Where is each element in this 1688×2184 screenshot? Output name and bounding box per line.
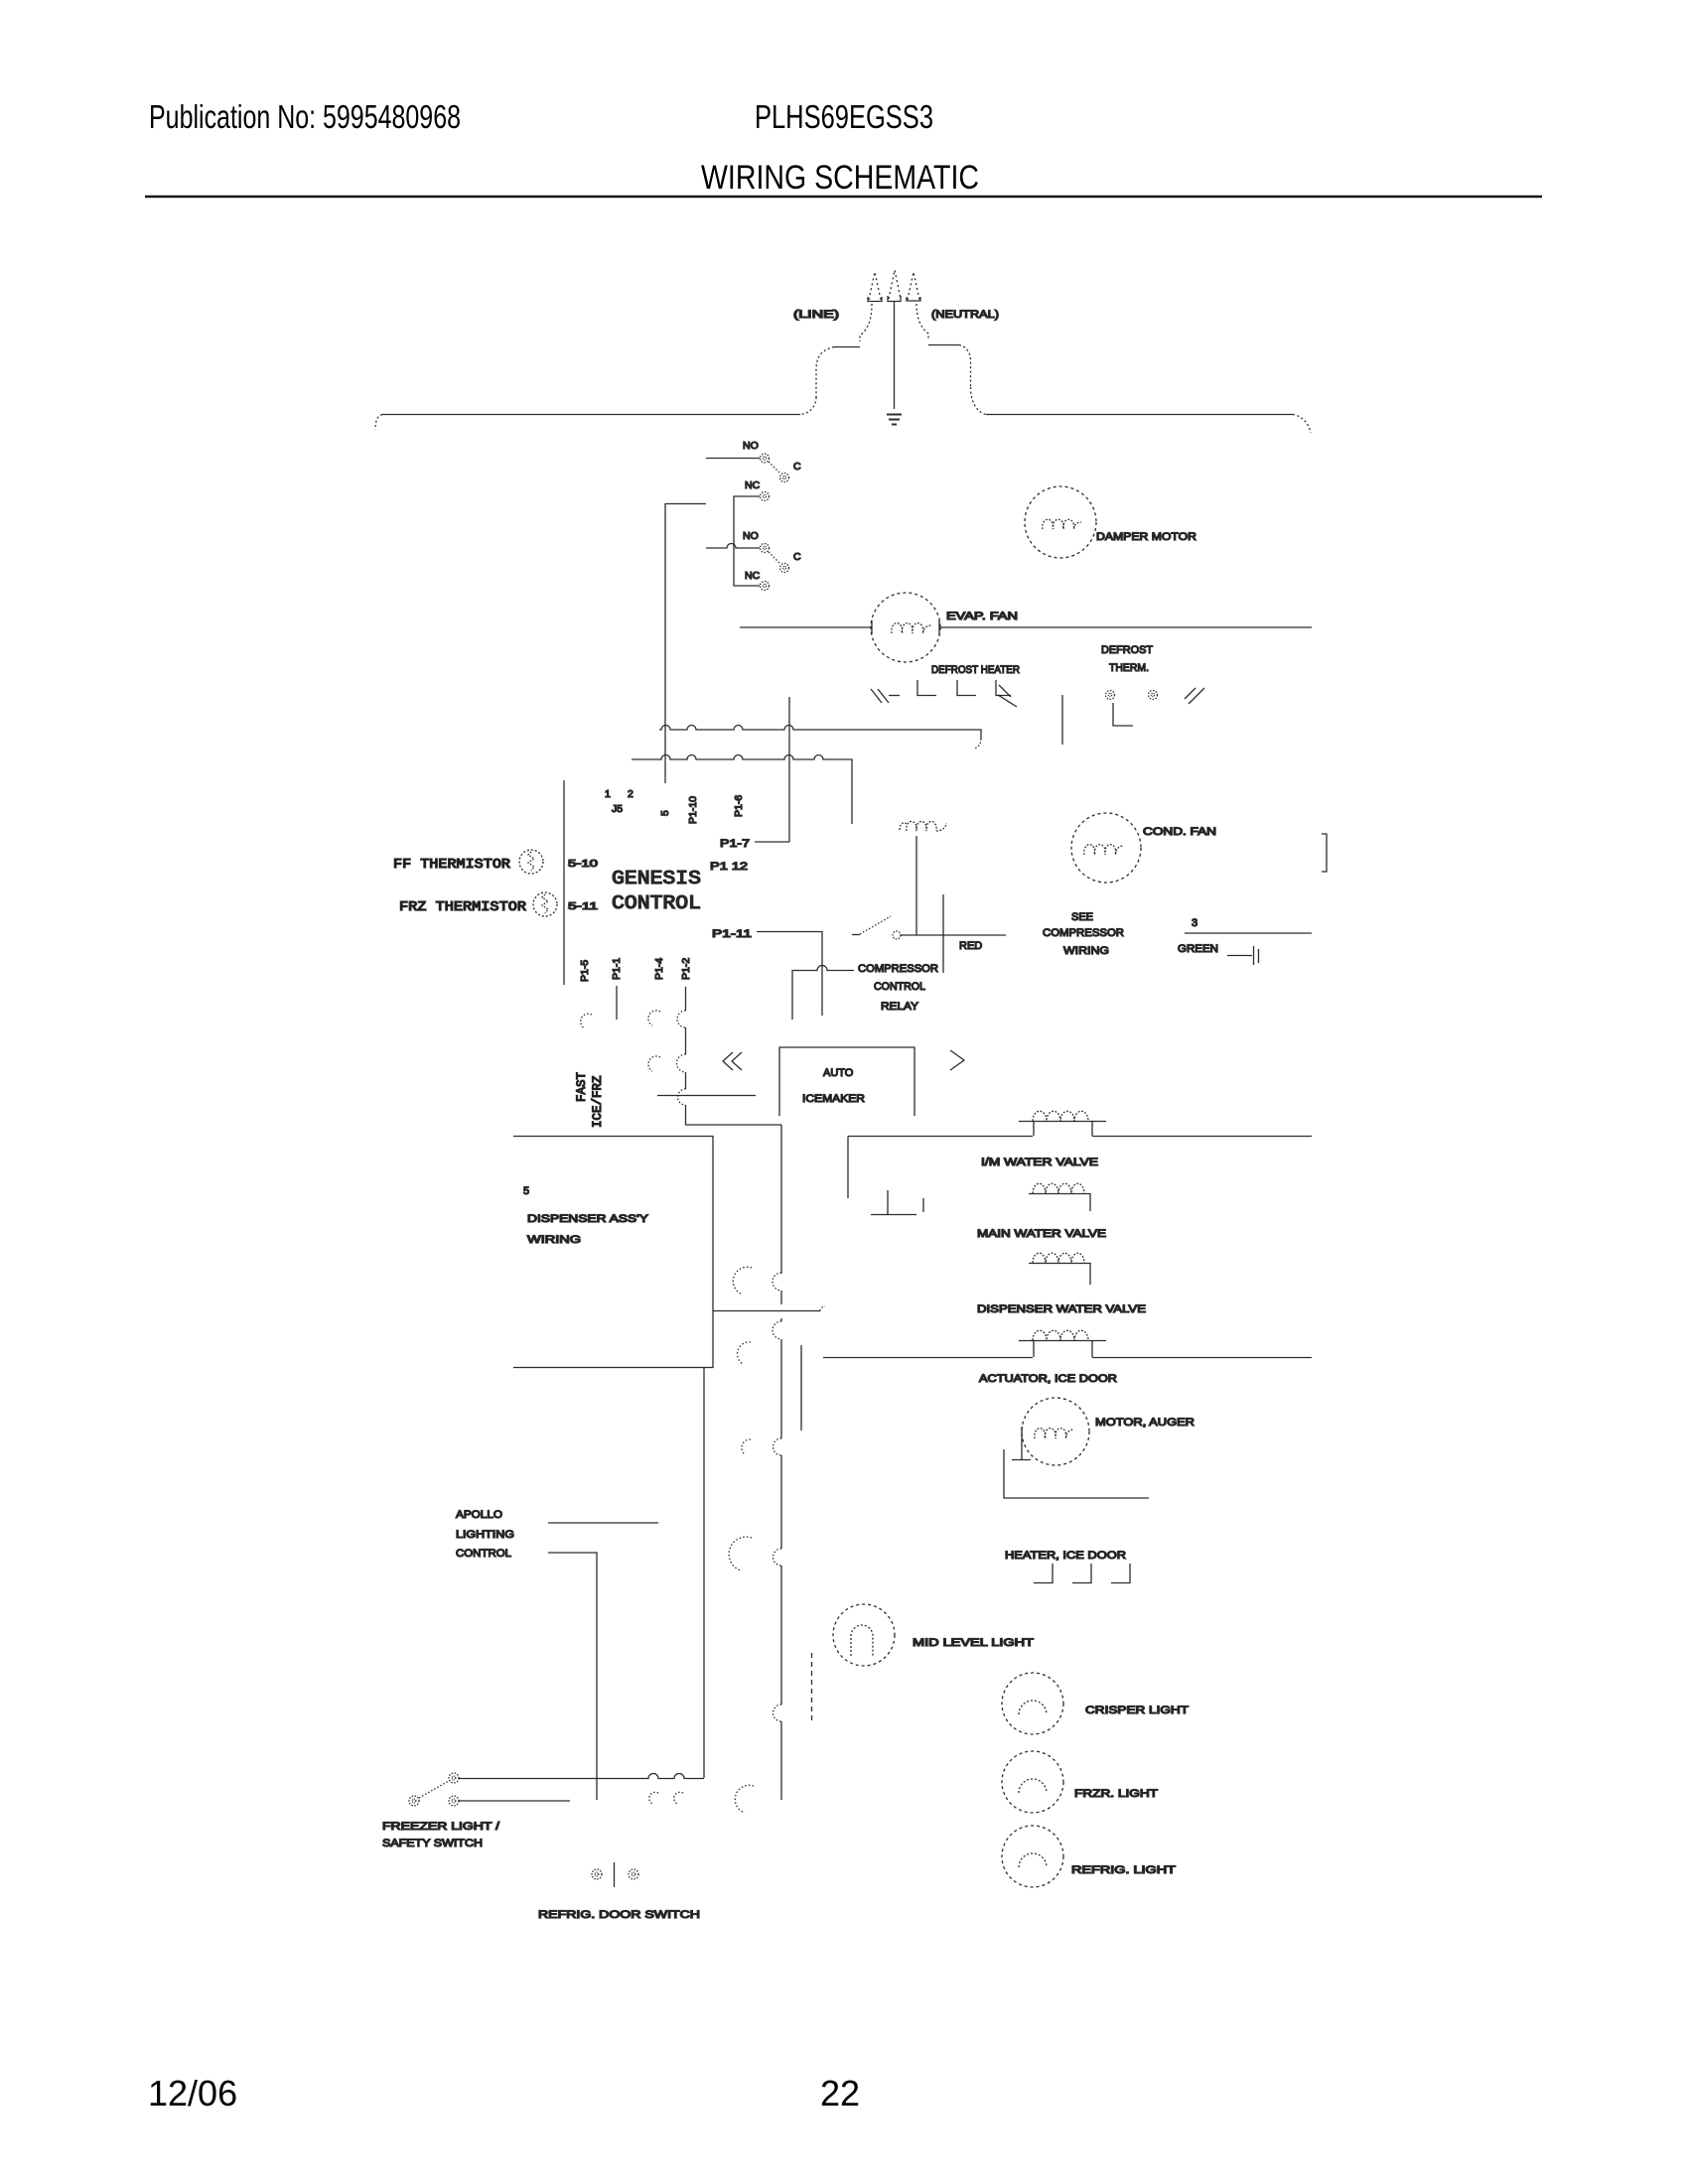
FF thermistor RT1 [519, 850, 543, 874]
svg-text:SAFETY SWITCH: SAFETY SWITCH [382, 1838, 483, 1849]
svg-text:COMPRESSOR: COMPRESSOR [1043, 927, 1124, 939]
wire valve bus [848, 1136, 1312, 1138]
chevrons left of icemaker [723, 1052, 742, 1070]
crisper light [1002, 1673, 1063, 1734]
arrow right of defrost therm [1185, 688, 1204, 704]
wire evap fan bus left [740, 626, 871, 628]
svg-text:FAST: FAST [575, 1071, 589, 1102]
connector hook C3 [742, 1439, 751, 1454]
svg-text:5-11: 5-11 [568, 900, 598, 912]
header rule [145, 196, 1542, 199]
svg-text:NO: NO [743, 530, 759, 542]
FF door switch S1 NO contact [761, 454, 770, 463]
wire short vertical right of bus [800, 1345, 802, 1431]
connector row 2 (J5 plug lower) [632, 755, 852, 825]
svg-text:COMPRESSOR: COMPRESSOR [858, 963, 938, 975]
power plug NEUTRAL prong [908, 272, 919, 300]
wire S1 feed [706, 458, 760, 460]
wire defrost therm L [1113, 703, 1133, 726]
connector row 1 (J5 plug) [659, 726, 981, 740]
svg-text:2: 2 [628, 788, 633, 800]
svg-text:CRISPER LIGHT: CRISPER LIGHT [1085, 1705, 1189, 1716]
svg-text:WIRING: WIRING [1063, 945, 1109, 957]
wire bus drop to P1-7 [788, 697, 790, 842]
FF door switch S1 arm to C [769, 462, 780, 474]
svg-text:GENESIS: GENESIS [612, 868, 701, 889]
auger motor [1022, 1398, 1089, 1465]
connector hook C5 [735, 1785, 754, 1813]
svg-text:RED: RED [959, 940, 982, 952]
svg-text:NC: NC [745, 570, 761, 582]
wire relay coil to contact [915, 836, 917, 935]
svg-text:5: 5 [659, 810, 671, 816]
svg-text:DEFROST HEATER: DEFROST HEATER [931, 664, 1020, 676]
valve common terminal [871, 1190, 923, 1215]
wire P1-11 [757, 932, 822, 1017]
svg-text:NO: NO [743, 440, 759, 452]
svg-text:COND. FAN: COND. FAN [1143, 826, 1216, 838]
svg-text:(NEUTRAL): (NEUTRAL) [931, 309, 999, 321]
wire short vertical near defrost therm [1061, 695, 1063, 745]
svg-text:CONTROL: CONTROL [874, 981, 925, 993]
svg-text:FREEZER LIGHT /: FREEZER LIGHT / [382, 1821, 500, 1833]
wire top right bus [986, 414, 1293, 416]
svg-text:DISPENSER ASS'Y: DISPENSER ASS'Y [527, 1213, 649, 1225]
ice door heater element [1034, 1564, 1130, 1583]
wire ground prong down [894, 302, 896, 409]
FRZ door switch S2 arm to C [769, 552, 780, 564]
header text [149, 98, 979, 197]
condenser fan motor [1071, 813, 1141, 883]
wire line side S-curve [860, 304, 872, 341]
svg-text:(LINE): (LINE) [793, 309, 839, 321]
wire freezer switch to bus with connector bumps [459, 1774, 704, 1779]
wire dispenser to valve with hop [713, 1310, 820, 1312]
wire NC bracket [734, 496, 760, 586]
svg-text:RELAY: RELAY [881, 1001, 919, 1013]
wire P1-4 to icemaker [657, 1095, 756, 1097]
wire apollo upper [548, 1522, 658, 1524]
FRZ thermistor RT2 [533, 892, 557, 916]
wire actuator bus [823, 1357, 1312, 1359]
wire neutral side S-curve [916, 304, 928, 340]
relay contact [893, 931, 901, 939]
connector hook C2 [737, 1342, 751, 1364]
connector hook C1 [733, 1267, 752, 1295]
wire auger motor lead [1004, 1449, 1149, 1498]
connector hook C4 [729, 1537, 752, 1570]
svg-text:DISPENSER WATER VALVE: DISPENSER WATER VALVE [977, 1303, 1146, 1315]
svg-text:1: 1 [605, 788, 611, 800]
svg-text:5-10: 5-10 [568, 858, 598, 870]
genesis control board edge [563, 780, 565, 985]
svg-text:22: 22 [820, 2073, 860, 2114]
svg-text:WIRING SCHEMATIC: WIRING SCHEMATIC [701, 159, 979, 197]
svg-text:P1-10: P1-10 [687, 796, 699, 824]
svg-text:P1-5: P1-5 [579, 960, 591, 982]
svg-text:DEFROST: DEFROST [1101, 644, 1153, 656]
auto icemaker box [779, 1047, 914, 1116]
svg-text:CONTROL: CONTROL [456, 1548, 511, 1560]
wire P1-7 stub [755, 841, 789, 843]
svg-text:LIGHTING: LIGHTING [456, 1529, 514, 1541]
refrigerator light [1002, 1826, 1063, 1887]
svg-text:C: C [793, 551, 801, 563]
defrost heater element [871, 680, 1017, 707]
S2 NC contact [761, 582, 770, 591]
evap fan motor [871, 593, 940, 662]
wire top left bus [382, 414, 800, 416]
svg-text:CONTROL: CONTROL [612, 892, 701, 914]
wire P1-2 column with connector scallops [685, 987, 687, 1011]
svg-text:I/M WATER VALVE: I/M WATER VALVE [981, 1157, 1098, 1168]
svg-text:ICE/FRZ: ICE/FRZ [591, 1075, 605, 1128]
wire evap fan bus right [940, 626, 1312, 628]
svg-text:12/06: 12/06 [148, 2073, 237, 2114]
FRZ door switch S2 NO contact [761, 544, 770, 553]
continuation bracket [1322, 834, 1327, 872]
damper motor M1 [1025, 486, 1096, 558]
connector hook P1-4 lower [648, 1056, 660, 1071]
wire apollo lower [548, 1553, 597, 1800]
dashed break line near mid light [811, 1653, 813, 1720]
svg-text:ICEMAKER: ICEMAKER [802, 1093, 865, 1105]
svg-text:FF THERMISTOR: FF THERMISTOR [393, 858, 510, 873]
wire relay contact to compressor [901, 934, 1006, 936]
svg-text:PLHS69EGSS3: PLHS69EGSS3 [755, 98, 933, 135]
svg-text:AUTO: AUTO [823, 1067, 854, 1079]
svg-text:ACTUATOR, ICE DOOR: ACTUATOR, ICE DOOR [979, 1373, 1117, 1385]
wire dispenser box down to freezer switch [703, 1367, 705, 1778]
connector hook P1-4 upper [648, 1011, 660, 1025]
connector halves below [649, 1792, 683, 1804]
mid level light [833, 1604, 895, 1666]
svg-text:P1-1: P1-1 [611, 958, 623, 980]
svg-text:GREEN: GREEN [1178, 943, 1218, 955]
svg-text:P1-2: P1-2 [680, 958, 692, 980]
svg-text:3: 3 [1192, 917, 1197, 929]
svg-text:WIRING: WIRING [527, 1234, 581, 1246]
svg-text:MID LEVEL LIGHT: MID LEVEL LIGHT [913, 1637, 1034, 1649]
footer date 12/06 [148, 2073, 237, 2114]
svg-text:Publication No: 5995480968: Publication No: 5995480968 [149, 98, 461, 135]
footer page number 22 [820, 2073, 860, 2114]
svg-text:MOTOR, AUGER: MOTOR, AUGER [1095, 1417, 1195, 1429]
svg-text:P1-4: P1-4 [653, 958, 665, 980]
dispenser water valve coil [1029, 1263, 1090, 1265]
main water valve coil [1029, 1193, 1090, 1195]
svg-text:5: 5 [523, 1185, 529, 1197]
defrost thermostat contacts [1106, 691, 1115, 700]
wire vertical through relay wire [942, 894, 944, 973]
wire main center bus down with connector scallops [780, 1125, 782, 1274]
svg-text:THERM.: THERM. [1109, 662, 1149, 674]
svg-text:C: C [793, 461, 801, 473]
svg-text:EVAP. FAN: EVAP. FAN [946, 611, 1018, 622]
wire freezer switch NC stub [459, 1800, 570, 1802]
svg-text:J5: J5 [612, 803, 623, 815]
power plug ground prong (center) [889, 270, 901, 299]
icemaker water valve coil [1019, 1121, 1106, 1123]
wire compressor pin 3 [1185, 932, 1312, 934]
relay contact arm [860, 916, 891, 934]
ground symbol [887, 415, 902, 425]
wire relay aux with hop [792, 966, 854, 1021]
svg-text:FRZR. LIGHT: FRZR. LIGHT [1074, 1788, 1158, 1800]
svg-text:SEE: SEE [1071, 911, 1093, 923]
dispenser assembly box [513, 1137, 713, 1368]
freezer light / safety switch [449, 1773, 459, 1783]
svg-text:FRZ THERMISTOR: FRZ THERMISTOR [399, 900, 526, 915]
wire S2 feed with hop [706, 544, 760, 549]
chevron right of icemaker [950, 1050, 964, 1070]
compressor ground [1227, 955, 1252, 957]
compressor control relay coil [900, 821, 946, 831]
refrig door switch [592, 1869, 602, 1879]
svg-text:REFRIG. LIGHT: REFRIG. LIGHT [1071, 1864, 1176, 1876]
svg-text:HEATER, ICE DOOR: HEATER, ICE DOOR [1005, 1550, 1126, 1562]
wire auger motor terminal [1012, 1427, 1031, 1460]
svg-text:P1-6: P1-6 [733, 795, 745, 817]
relay contact pivot [852, 934, 860, 936]
svg-text:DAMPER MOTOR: DAMPER MOTOR [1096, 531, 1196, 543]
svg-text:P1-11: P1-11 [712, 928, 752, 940]
wire pin stub P1-1 [616, 986, 618, 1020]
ice door actuator coil [1019, 1340, 1106, 1342]
svg-text:P1-7: P1-7 [720, 838, 750, 850]
power plug LINE prong [869, 272, 881, 300]
svg-text:APOLLO: APOLLO [456, 1509, 502, 1521]
svg-text:P1 12: P1 12 [710, 861, 748, 873]
svg-text:REFRIG. DOOR SWITCH: REFRIG. DOOR SWITCH [538, 1909, 700, 1921]
connector hook P1-5 [581, 1014, 592, 1028]
freezer light [1002, 1751, 1063, 1813]
svg-text:NC: NC [745, 479, 761, 491]
S1 NC contact [761, 492, 770, 501]
wire left bus to control [665, 504, 706, 784]
switch arm [419, 1781, 449, 1798]
svg-text:MAIN WATER VALVE: MAIN WATER VALVE [977, 1228, 1106, 1240]
